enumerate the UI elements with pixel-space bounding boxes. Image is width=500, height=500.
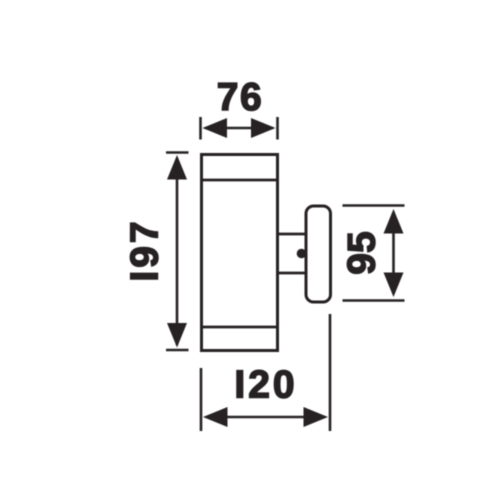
arrowhead 95 top [384, 209, 404, 234]
svg-text:95: 95 [341, 231, 384, 274]
dimension 76 line [205, 127, 273, 130]
arrowhead 120 right [304, 407, 329, 427]
bottom cap line [202, 326, 278, 329]
arrowhead 197 bottom [167, 323, 187, 348]
dimension 95 line [392, 212, 395, 294]
bracket arm bottom [278, 272, 307, 275]
screw knob [297, 249, 307, 259]
dimension 197 line [176, 158, 179, 345]
svg-text:I97: I97 [124, 218, 167, 281]
top cap line [202, 179, 278, 182]
dimension 120 line [206, 416, 325, 419]
lamp body [202, 155, 278, 351]
arrowhead 76 left [203, 118, 228, 138]
dimension 197 ticks [166, 153, 189, 351]
arrowhead 197 top [167, 155, 187, 180]
dimension 76 ticks [201, 117, 278, 140]
arrowhead 120 left [203, 407, 228, 427]
wall plate [306, 206, 331, 302]
bracket arm top [278, 233, 307, 236]
arrowhead 95 bottom [384, 273, 404, 298]
svg-text:I20: I20 [234, 364, 297, 407]
arrowhead 76 right [251, 118, 276, 138]
dimension 95 extension lines [343, 206, 405, 301]
svg-text:76: 76 [217, 76, 263, 119]
dimension 120 extension lines [201, 314, 330, 431]
